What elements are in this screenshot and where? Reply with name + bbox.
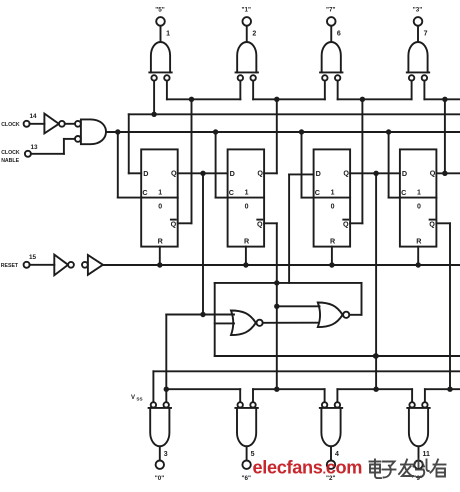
svg-text:D: D xyxy=(143,169,148,178)
wire Q3 dropper xyxy=(373,173,378,392)
wire Qbar3 riser xyxy=(350,97,365,224)
wire Qbar2 dropper xyxy=(264,223,279,392)
svg-text:0: 0 xyxy=(158,204,162,211)
wire Q1 dropper xyxy=(200,173,205,317)
svg-text:0: 0 xyxy=(331,204,335,211)
wire Q2 riser xyxy=(264,97,279,174)
svg-text:SS: SS xyxy=(136,397,142,402)
wire clock tap to C of FF3 xyxy=(302,132,314,198)
svg-text:RESET: RESET xyxy=(1,263,19,269)
svg-text:1: 1 xyxy=(158,189,162,196)
wire top segment Q2 xyxy=(253,81,325,100)
wire N2 upper input xyxy=(277,305,320,307)
svg-text:D: D xyxy=(230,169,235,178)
wire bottom segment Qbar2 xyxy=(253,389,325,402)
wire bottom segment Qbar4 xyxy=(425,389,460,402)
svg-text:"5": "5" xyxy=(155,6,164,13)
svg-text:1: 1 xyxy=(166,31,170,38)
inverter A2 (reset) xyxy=(54,255,74,276)
wire Q1 to D2 xyxy=(178,171,228,176)
wire N1 output to N2 input xyxy=(263,322,319,324)
D flip-flop FF4 xyxy=(400,149,437,246)
svg-text:R: R xyxy=(158,236,164,245)
wire feedback bus xyxy=(129,112,460,117)
label VSS xyxy=(131,395,143,402)
watermark elecfans.com xyxy=(253,458,363,478)
D flip-flop FF3 xyxy=(314,149,351,246)
decode NOR gate B3 output "2" xyxy=(320,402,342,482)
input terminal CLOCK pin 14 xyxy=(1,113,44,128)
svg-text:C: C xyxy=(315,188,320,197)
svg-text:C: C xyxy=(229,188,234,197)
wire R stub FF3 xyxy=(331,247,333,265)
wire bottom segment Q3 xyxy=(337,389,412,402)
decode NOR gate B4 output "9" xyxy=(407,402,430,482)
wire Q3 to D4 xyxy=(350,171,400,176)
watermark Chinese characters xyxy=(370,460,446,479)
input terminal CLOCK ENABLE pin 13 xyxy=(1,144,38,164)
wire N2 output loop xyxy=(215,283,362,356)
inverter A3 (reset) xyxy=(82,255,103,275)
svg-text:NABLE: NABLE xyxy=(1,158,19,164)
svg-text:1: 1 xyxy=(417,189,421,196)
wire Qbar4 dropper xyxy=(436,223,452,392)
svg-text:11: 11 xyxy=(423,451,431,458)
decode NOR gate B1 output "0" xyxy=(149,402,171,482)
svg-text:Q: Q xyxy=(257,219,263,228)
wire bottom segment Q1 xyxy=(166,389,240,402)
inverter A1 (clock buffer) xyxy=(44,114,75,134)
decode NOR gate T1 output "5" xyxy=(149,6,171,80)
wire top segment Qbar3 xyxy=(338,81,412,100)
svg-text:Q: Q xyxy=(343,169,349,178)
svg-text:1: 1 xyxy=(331,189,335,196)
svg-text:"6": "6" xyxy=(242,475,251,482)
wire clock tap to C of FF4 xyxy=(389,132,400,198)
svg-text:R: R xyxy=(416,236,422,245)
svg-text:Q: Q xyxy=(257,169,263,178)
wire Qbar1 riser xyxy=(178,97,195,224)
wire Q1 net dropper to bottom xyxy=(164,315,169,392)
clock NOR gate G1 xyxy=(75,119,106,144)
wire R stub FF2 xyxy=(245,247,247,265)
input terminal RESET pin 15 xyxy=(1,254,55,269)
decode NOR gate B2 output "6" xyxy=(235,402,257,482)
svg-text:Q: Q xyxy=(171,169,177,178)
wire G1 output to C of FF1 xyxy=(118,132,141,198)
svg-text:7: 7 xyxy=(424,31,428,38)
svg-text:D: D xyxy=(316,169,321,178)
svg-text:6: 6 xyxy=(337,31,341,38)
svg-text:Q: Q xyxy=(343,219,349,228)
svg-text:V: V xyxy=(131,395,135,401)
svg-text:D: D xyxy=(402,169,407,178)
svg-text:Q: Q xyxy=(171,219,177,228)
svg-text:0: 0 xyxy=(245,204,249,211)
wire top segment Qbar1 xyxy=(167,81,240,100)
svg-text:14: 14 xyxy=(29,113,37,120)
svg-text:CLOCK: CLOCK xyxy=(1,150,20,156)
svg-text:0: 0 xyxy=(417,204,421,211)
wire vss line xyxy=(153,371,460,402)
svg-text:Q: Q xyxy=(430,169,436,178)
wire Q4 line xyxy=(436,171,460,176)
wire lower loop line xyxy=(215,353,460,358)
decode NOR gate T2 output "1" xyxy=(236,6,258,80)
D flip-flop FF2 xyxy=(228,149,265,246)
svg-text:C: C xyxy=(142,188,147,197)
decode NOR gate T4 output "3" xyxy=(407,6,429,80)
svg-text:2: 2 xyxy=(252,31,256,38)
svg-text:15: 15 xyxy=(29,254,37,261)
svg-text:1: 1 xyxy=(245,189,249,196)
D flip-flop FF1 xyxy=(141,149,178,246)
wire N1 lower input xyxy=(215,322,234,324)
wire gate1 left input tap xyxy=(153,81,155,115)
wire top segment Q4 xyxy=(424,81,460,100)
NOR gate N2 xyxy=(318,303,350,328)
wire reset bus xyxy=(103,262,460,267)
wire R stub FF1 xyxy=(159,247,161,265)
wire clock bus xyxy=(106,129,460,134)
svg-text:13: 13 xyxy=(30,144,38,151)
wire clock-enable to G1 xyxy=(31,139,75,154)
wire R stub FF4 xyxy=(417,247,419,265)
wire N1 upper input xyxy=(166,314,234,316)
svg-text:R: R xyxy=(244,236,250,245)
svg-text:elecfans.com: elecfans.com xyxy=(253,458,363,478)
svg-text:"3": "3" xyxy=(413,6,422,13)
svg-text:"1": "1" xyxy=(242,6,251,13)
wire clock tap to C of FF2 xyxy=(216,132,228,198)
svg-text:"0": "0" xyxy=(155,475,164,482)
svg-text:3: 3 xyxy=(164,451,168,458)
svg-text:C: C xyxy=(401,188,406,197)
wire Q4 riser xyxy=(442,97,447,174)
decode NOR gate T3 output "7" xyxy=(320,6,342,80)
wire D3 feed xyxy=(289,174,314,283)
svg-text:"7": "7" xyxy=(326,6,335,13)
NOR gate N1 xyxy=(231,311,263,336)
svg-text:CLOCK: CLOCK xyxy=(1,122,20,128)
svg-text:Q: Q xyxy=(429,219,435,228)
svg-text:R: R xyxy=(330,236,336,245)
wire feedback to D of FF1 xyxy=(129,114,141,173)
